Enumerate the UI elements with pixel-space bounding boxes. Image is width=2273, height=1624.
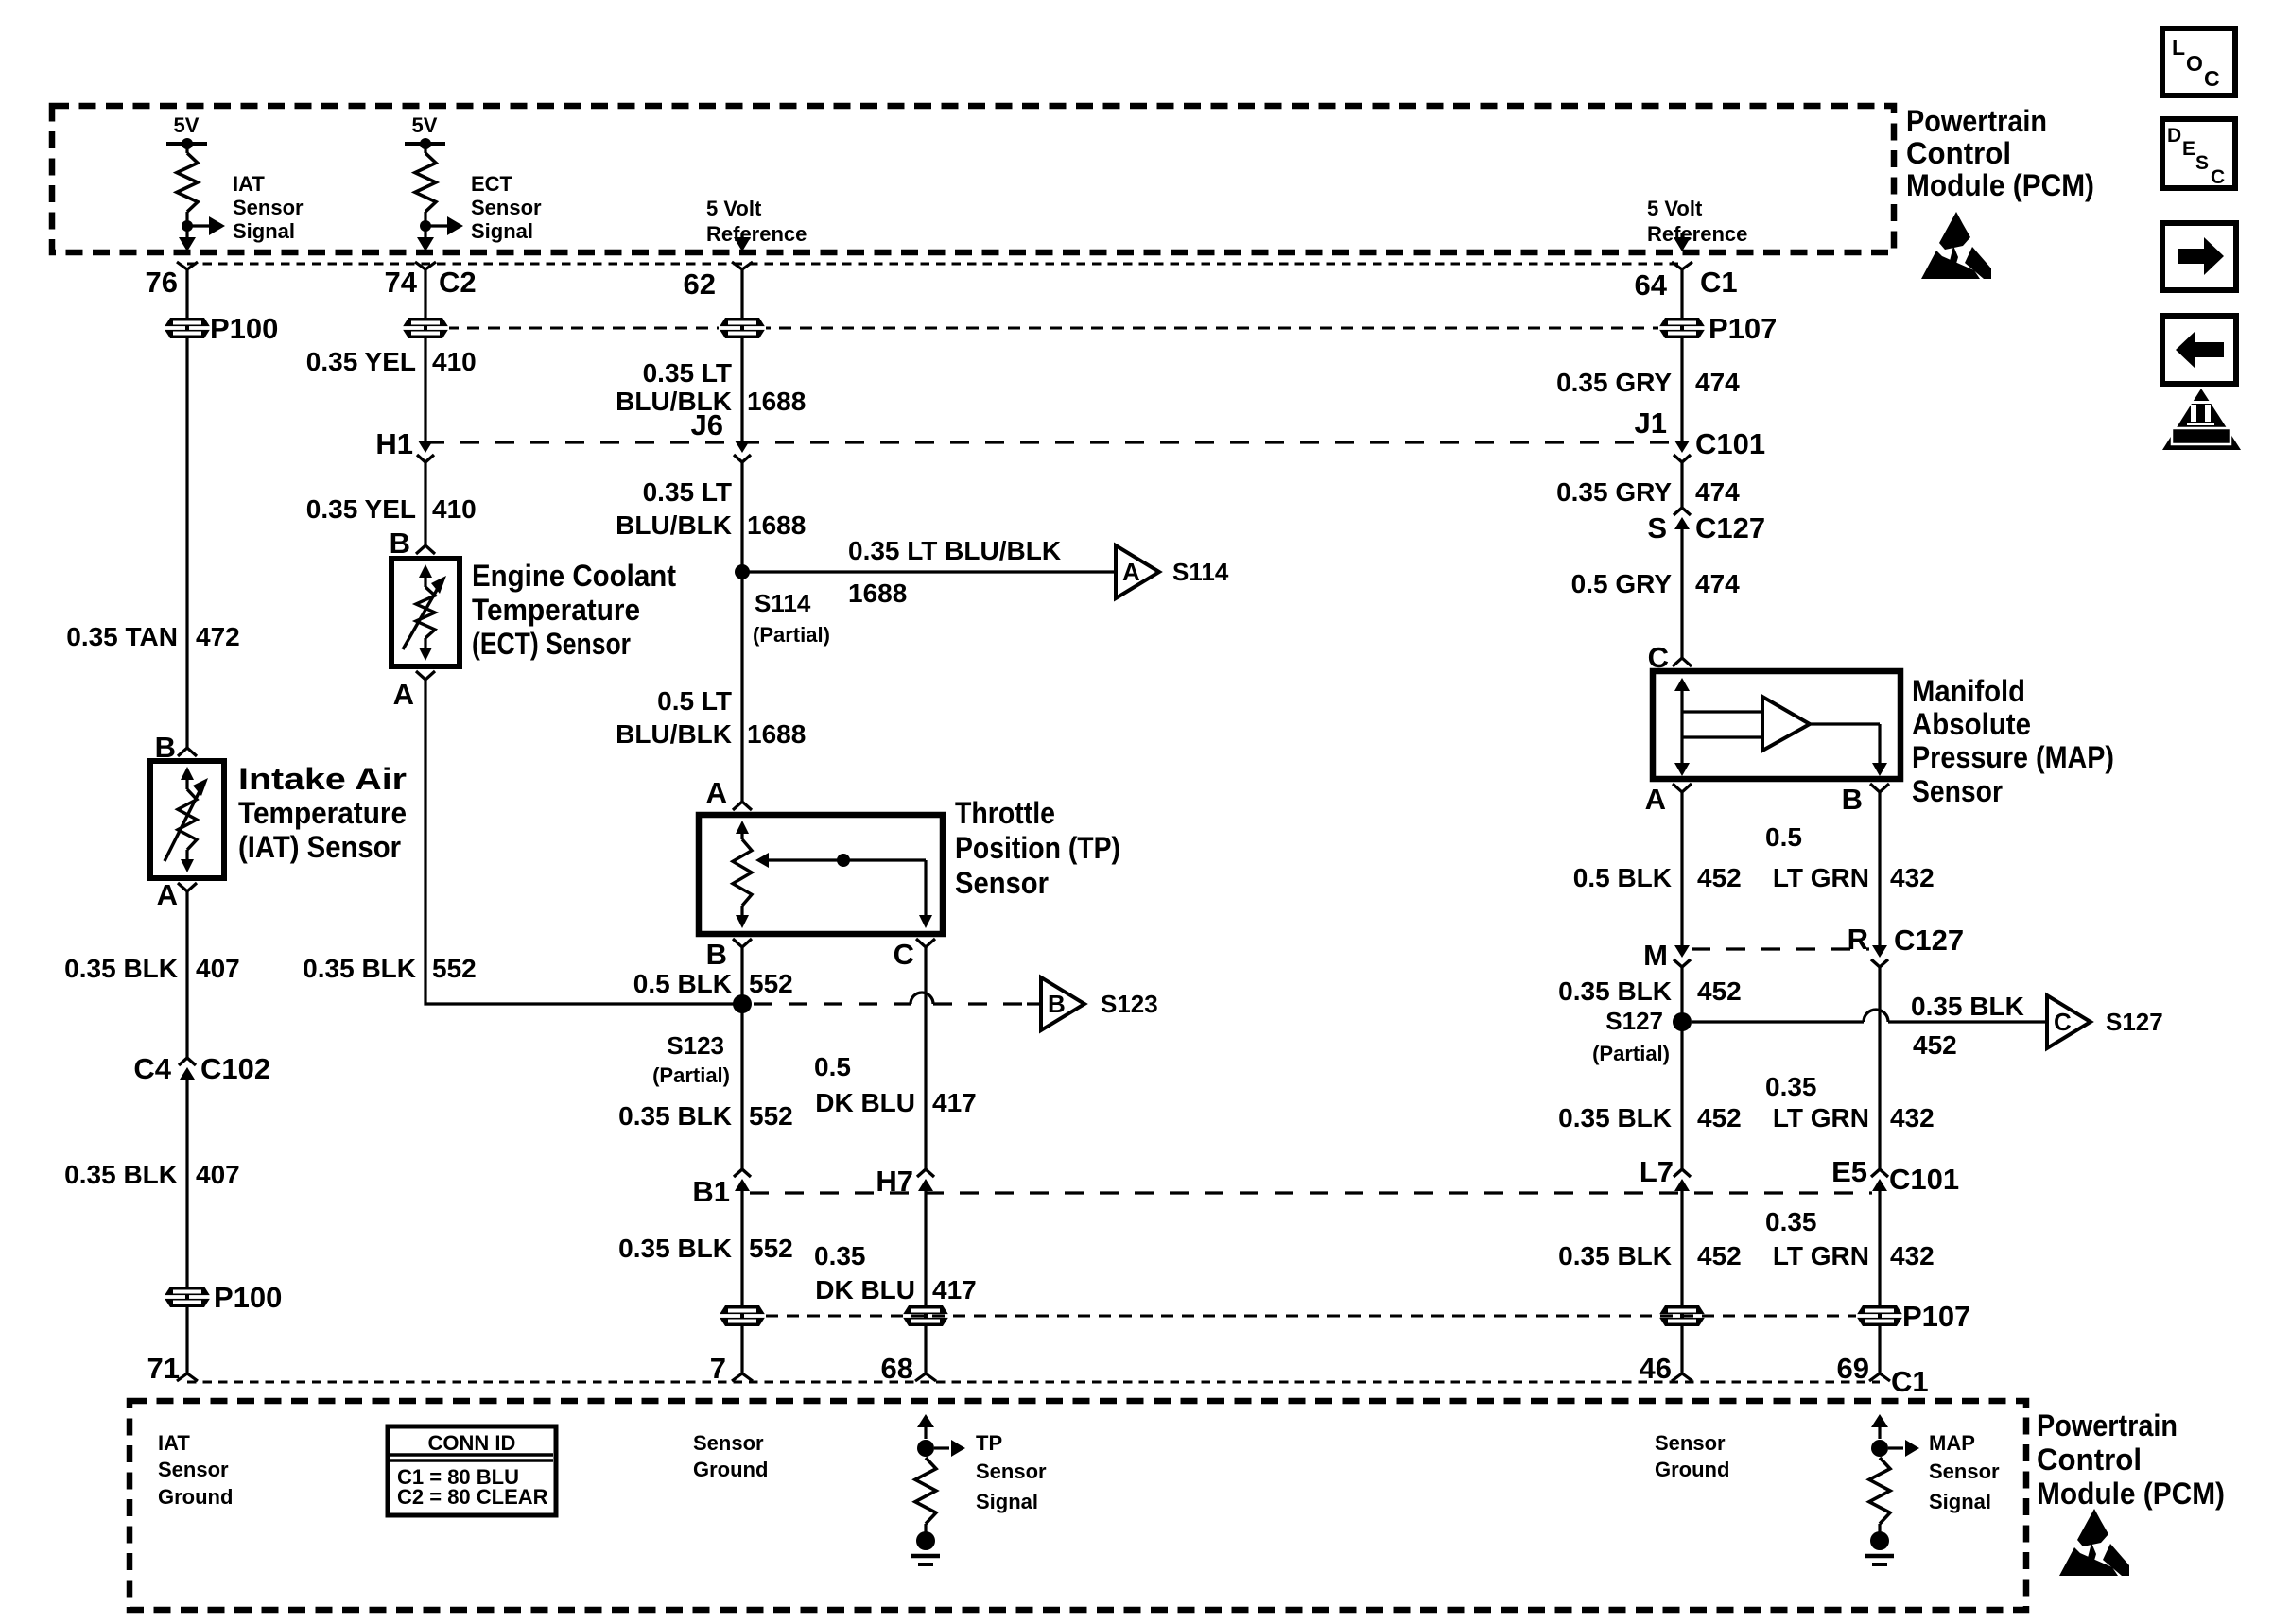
pin 7 (732, 1373, 753, 1381)
svg-text:Ground: Ground (1655, 1458, 1729, 1481)
label 0.35 LT BLU/BLK 1688 mid (616, 477, 806, 540)
svg-text:1688: 1688 (747, 719, 806, 749)
svg-text:552: 552 (432, 954, 477, 983)
svg-text:D: D (2167, 125, 2181, 147)
icon box DESC (2162, 119, 2235, 188)
svg-text:C1: C1 (1891, 1365, 1929, 1398)
label Manifold Absolute Pressure (MAP) Sensor (1912, 674, 2114, 808)
wire TP signal into PCM (arrow) (917, 1414, 965, 1457)
wire 5V reference right exits PCM (arrow) (1674, 233, 1691, 251)
svg-text:0.35: 0.35 (814, 1241, 866, 1270)
svg-text:B: B (1842, 783, 1863, 816)
PCM module top dashed box (52, 106, 1894, 252)
svg-text:410: 410 (432, 347, 477, 376)
wire TP B to S123 (740, 947, 743, 1004)
svg-text:ECT: ECT (471, 172, 513, 196)
svg-text:BLU/BLK: BLU/BLK (616, 510, 732, 540)
PCM module bottom dashed box (130, 1401, 2026, 1610)
svg-text:S: S (2195, 152, 2209, 174)
svg-text:J6: J6 (691, 408, 723, 441)
svg-text:Sensor: Sensor (233, 196, 304, 219)
svg-text:C127: C127 (1894, 924, 1964, 957)
wire IAT sensor signal tap (182, 212, 225, 239)
svg-text:(ECT) Sensor: (ECT) Sensor (472, 627, 631, 661)
connector P100 on ECT wire (402, 318, 449, 338)
svg-text:0.35 BLK: 0.35 BLK (1558, 976, 1672, 1006)
label Engine Coolant Temperature (ECT) Sensor (472, 559, 676, 661)
thermistor ECT (419, 564, 432, 578)
pin B TP sensor (733, 939, 752, 947)
svg-text:0.35 BLK: 0.35 BLK (64, 954, 178, 983)
svg-text:Powertrain: Powertrain (1906, 104, 2047, 138)
label TP Sensor Signal (976, 1431, 1047, 1513)
svg-text:0.35 BLK: 0.35 BLK (1558, 1103, 1672, 1132)
label MAP Sensor Signal (1929, 1431, 2000, 1513)
svg-text:Throttle: Throttle (955, 796, 1055, 830)
svg-text:Intake Air: Intake Air (238, 762, 407, 796)
inline connector H7 (917, 1169, 934, 1177)
splice node S127 (Partial) (1673, 1012, 1692, 1031)
thermistor IAT (181, 767, 194, 780)
svg-text:71: 71 (147, 1352, 180, 1385)
IAT sensor box (150, 761, 224, 878)
wire M to S127 (1680, 967, 1683, 1022)
svg-text:1688: 1688 (747, 387, 806, 416)
svg-text:0.35 BLK: 0.35 BLK (1911, 992, 2024, 1021)
svg-text:CONN ID: CONN ID (428, 1431, 516, 1455)
svg-text:Reference: Reference (706, 222, 807, 246)
wire IAT A down to C102 (185, 891, 188, 1058)
wire H1 to ECT sensor B (424, 462, 426, 545)
pin B MAP sensor (1870, 784, 1889, 792)
label Throttle Position (TP) Sensor (955, 796, 1120, 900)
svg-text:LT GRN: LT GRN (1773, 1241, 1869, 1270)
inline connector J1 C101 (1674, 441, 1690, 453)
wire connector to pin 7 (740, 1326, 743, 1373)
resistor MAP input (1869, 1458, 1890, 1524)
svg-text:0.5 BLK: 0.5 BLK (1573, 863, 1672, 892)
svg-text:417: 417 (932, 1275, 977, 1304)
svg-text:H1: H1 (375, 427, 413, 460)
ESD warning symbol bottom (2059, 1509, 2129, 1576)
icon OBD II triangle (2162, 389, 2241, 450)
svg-text:68: 68 (881, 1352, 913, 1385)
connector row dashed link C2-to-C1 (425, 327, 1682, 330)
svg-text:64: 64 (1635, 268, 1668, 302)
svg-text:Sensor: Sensor (158, 1458, 229, 1481)
dashed link B1-H7-L7-E5 (C101) (750, 1191, 1872, 1194)
svg-text:P100: P100 (214, 1281, 282, 1314)
label 5 Volt Reference left (706, 197, 807, 246)
label 0.35 DK BLU 417 (814, 1241, 977, 1304)
svg-text:Temperature: Temperature (238, 796, 407, 830)
svg-text:74: 74 (385, 266, 418, 299)
svg-text:552: 552 (749, 1234, 793, 1263)
svg-text:J1: J1 (1635, 406, 1667, 440)
svg-text:S114: S114 (1172, 558, 1229, 586)
icon box arrow right (2162, 223, 2236, 290)
wire E5 to P107 bottom (1878, 1191, 1881, 1305)
wire B1 to connector row (740, 1191, 743, 1305)
svg-text:O: O (2186, 51, 2203, 76)
wire P107 to pin 69 (1878, 1326, 1881, 1373)
pin 64 C1 (1635, 262, 1738, 302)
svg-text:5 Volt: 5 Volt (1647, 197, 1703, 220)
svg-text:B: B (390, 527, 410, 560)
svg-text:Sensor: Sensor (693, 1431, 764, 1455)
pin C MAP sensor (1673, 658, 1692, 666)
wire J1 to S C127 (1680, 462, 1683, 508)
TP sensor box (699, 815, 943, 934)
svg-text:452: 452 (1697, 976, 1742, 1006)
connector on right sensor-ground wire bottom (1658, 1305, 1706, 1326)
svg-text:7: 7 (710, 1352, 726, 1385)
inline connector J6 (735, 441, 750, 453)
svg-text:IAT: IAT (158, 1431, 190, 1455)
svg-text:552: 552 (749, 969, 793, 998)
svg-text:0.35 LT: 0.35 LT (643, 477, 732, 507)
connector row dashed link bottom (766, 1315, 1856, 1318)
svg-text:472: 472 (196, 622, 240, 651)
svg-text:C101: C101 (1889, 1163, 1959, 1196)
ground TP input (911, 1524, 940, 1564)
inline connector R C127 (1872, 945, 1887, 958)
connector P107 on right 5V-ref wire (1658, 318, 1706, 338)
label Sensor Ground (pin 7) (693, 1431, 768, 1481)
pointer triangle B S123 (1041, 977, 1084, 1030)
svg-text:P107: P107 (1902, 1300, 1970, 1333)
svg-text:407: 407 (196, 954, 240, 983)
label Sensor Ground (pin 46) (1655, 1431, 1729, 1481)
svg-text:Position (TP): Position (TP) (955, 831, 1120, 865)
inline connector B1 (734, 1169, 751, 1177)
pin 71 (177, 1373, 198, 1381)
inline connector H1 (418, 441, 433, 453)
ECT sensor box (391, 559, 460, 666)
label Intake Air Temperature (IAT) Sensor (238, 762, 407, 864)
pin A MAP sensor (1673, 784, 1692, 792)
svg-text:C101: C101 (1695, 427, 1765, 460)
ESD warning symbol top (1921, 212, 1991, 279)
inline connector C4 C102 (179, 1058, 196, 1065)
svg-text:LT GRN: LT GRN (1773, 1103, 1869, 1132)
svg-text:OBD II: OBD II (2177, 430, 2226, 444)
svg-text:S127: S127 (2106, 1008, 2163, 1036)
svg-text:Sensor: Sensor (1929, 1460, 2000, 1483)
pin 46 (1672, 1373, 1692, 1381)
pin 62 (684, 262, 753, 301)
svg-text:0.35 BLK: 0.35 BLK (64, 1160, 178, 1189)
svg-text:Pressure (MAP): Pressure (MAP) (1912, 740, 2114, 774)
svg-text:5 Volt: 5 Volt (706, 197, 762, 220)
wire IAT pin76 to P100 (185, 269, 188, 318)
svg-text:LT GRN: LT GRN (1773, 863, 1869, 892)
svg-text:0.35 BLK: 0.35 BLK (618, 1101, 732, 1131)
wire ECT pin74 to P100 (424, 269, 426, 318)
connector on 5V-ref wire (719, 318, 766, 338)
svg-text:417: 417 (932, 1088, 977, 1117)
pointer triangle C S127 (2047, 995, 2091, 1048)
connector on sensor-ground wire bottom (719, 1305, 766, 1326)
svg-text:S: S (1647, 511, 1667, 544)
svg-text:L7: L7 (1640, 1155, 1674, 1188)
svg-text:Signal: Signal (1929, 1490, 1991, 1513)
svg-text:E: E (2182, 138, 2195, 160)
wire P100 to IAT sensor B (185, 338, 188, 748)
svg-text:DK BLU: DK BLU (815, 1088, 915, 1117)
wire pin64 to P107 (1680, 269, 1683, 318)
PCM connector face dashed line top (187, 263, 1682, 266)
svg-text:452: 452 (1697, 1103, 1742, 1132)
inline connector M (1674, 945, 1690, 958)
wire P107 to J1 (1680, 338, 1683, 441)
MAP sensor box (1653, 671, 1900, 779)
wire IAT signal exits PCM (arrow) (179, 237, 196, 251)
ground MAP input (1865, 1524, 1894, 1564)
wire C102 to P100 lower (185, 1080, 188, 1287)
svg-text:0.35 LT BLU/BLK: 0.35 LT BLU/BLK (848, 536, 1061, 565)
svg-text:0.5 BLK: 0.5 BLK (633, 969, 732, 998)
amplifier MAP sensor internals (1674, 678, 1887, 776)
connector on TP signal wire bottom (902, 1305, 949, 1326)
svg-text:C1: C1 (1700, 266, 1738, 299)
pin C TP sensor (916, 939, 935, 947)
svg-text:(IAT) Sensor: (IAT) Sensor (238, 830, 401, 864)
svg-text:46: 46 (1640, 1352, 1672, 1385)
svg-text:0.35 BLK: 0.35 BLK (1558, 1241, 1672, 1270)
dashed branch S123 to pointer B (754, 1002, 911, 1005)
pin A TP sensor (733, 802, 752, 810)
svg-text:TP: TP (976, 1431, 1002, 1455)
wire connector to pin 68 (924, 1326, 927, 1373)
svg-text:E5: E5 (1831, 1155, 1867, 1188)
svg-text:Engine Coolant: Engine Coolant (472, 559, 676, 593)
svg-text:1688: 1688 (747, 510, 806, 540)
label IAT Sensor Signal (233, 172, 304, 243)
svg-text:5V: 5V (412, 113, 438, 137)
svg-text:410: 410 (432, 494, 477, 524)
svg-text:C2: C2 (439, 266, 477, 299)
svg-text:0.35 GRY: 0.35 GRY (1556, 368, 1672, 397)
svg-text:A: A (157, 878, 178, 911)
connector P100 lower on IAT wire (164, 1287, 211, 1307)
pin A IAT sensor (178, 883, 197, 891)
svg-text:0.35 TAN: 0.35 TAN (66, 622, 178, 651)
inline connector L7 (1674, 1169, 1691, 1177)
label 0.35 LT GRN 432 (mid) (1765, 1072, 1935, 1132)
inline connector S C127 (1674, 508, 1691, 515)
svg-text:Module (PCM): Module (PCM) (2037, 1477, 2225, 1511)
wire H7 to connector row (924, 1191, 927, 1305)
svg-text:474: 474 (1695, 477, 1740, 507)
svg-text:C4: C4 (133, 1052, 171, 1085)
pin 69 C1 (1869, 1373, 1890, 1381)
svg-text:432: 432 (1890, 863, 1935, 892)
svg-text:407: 407 (196, 1160, 240, 1189)
svg-text:Ground: Ground (693, 1458, 768, 1481)
svg-text:62: 62 (684, 268, 716, 301)
svg-text:B1: B1 (692, 1175, 730, 1208)
svg-text:C2 = 80 CLEAR: C2 = 80 CLEAR (397, 1485, 548, 1509)
label Powertrain Control Module (PCM) top right (1906, 104, 2094, 202)
svg-text:0.35 LT: 0.35 LT (643, 358, 732, 388)
wire ECT signal exits PCM (arrow) (417, 237, 434, 251)
svg-text:1688: 1688 (848, 579, 907, 608)
svg-text:474: 474 (1695, 368, 1740, 397)
svg-text:0.35 BLK: 0.35 BLK (618, 1234, 732, 1263)
svg-text:0.35 BLK: 0.35 BLK (303, 954, 416, 983)
wire MAP B to R (1878, 792, 1881, 945)
svg-text:0.35 GRY: 0.35 GRY (1556, 477, 1672, 507)
svg-text:432: 432 (1890, 1241, 1935, 1270)
pointer triangle A S114 (1116, 545, 1159, 598)
wire MAP signal into PCM (arrow) (1871, 1414, 1919, 1457)
label 0.5 LT BLU/BLK 1688 (616, 686, 806, 749)
wire 5V reference left exits PCM (arrow) (734, 233, 751, 251)
wire S to MAP sensor C (1680, 529, 1683, 658)
svg-text:A: A (1645, 783, 1666, 816)
svg-text:B: B (706, 938, 727, 971)
svg-text:BLU/BLK: BLU/BLK (616, 719, 732, 749)
pin 76 (146, 262, 198, 299)
svg-text:452: 452 (1697, 863, 1742, 892)
label 5 Volt Reference right (1647, 197, 1747, 246)
pin B IAT sensor (178, 748, 197, 756)
svg-text:A: A (393, 678, 414, 711)
svg-text:Control: Control (2037, 1443, 2142, 1477)
label 0.5 LT GRN 432 (1765, 822, 1935, 892)
label 0.5 DK BLU 417 (814, 1052, 977, 1117)
CONN ID legend table (388, 1426, 556, 1515)
svg-text:Control: Control (1906, 136, 2011, 170)
splice node S114 (Partial) (735, 564, 750, 579)
potentiometer TP sensor (733, 821, 932, 928)
svg-text:C: C (2054, 1008, 2072, 1036)
wire S127 branch to pointer C (with hop) (1692, 1020, 1864, 1023)
label IAT Sensor Ground (158, 1431, 233, 1509)
pin 68 (915, 1373, 936, 1381)
5V supply node ECT (405, 113, 445, 153)
wire ECT sensor signal tap (420, 212, 463, 239)
svg-text:Sensor: Sensor (1912, 774, 2003, 808)
svg-text:474: 474 (1695, 569, 1740, 598)
label Powertrain Control Module (PCM) bottom right (2037, 1408, 2225, 1511)
svg-text:S123: S123 (667, 1031, 724, 1060)
wire connector to J6 (740, 338, 743, 441)
connector P107 bottom on MAP signal wire (1856, 1305, 1903, 1326)
svg-text:Powertrain: Powertrain (2037, 1408, 2178, 1443)
dashed link M to R (C127) (1692, 947, 1869, 950)
inline connector E5 C101 (1871, 1169, 1888, 1177)
inline connector row dashed link H1-J6-J1 (425, 441, 1682, 443)
svg-text:DK BLU: DK BLU (815, 1275, 915, 1304)
wire ECT A down and over to S123 (425, 680, 735, 1004)
svg-text:IAT: IAT (233, 172, 265, 196)
svg-text:C: C (2204, 66, 2220, 91)
svg-text:Signal: Signal (976, 1490, 1038, 1513)
svg-text:P100: P100 (210, 312, 278, 345)
5V supply node IAT (166, 113, 207, 153)
svg-text:Temperature: Temperature (472, 593, 640, 627)
connector P100 on IAT wire (164, 318, 211, 338)
svg-text:S114: S114 (755, 589, 811, 617)
svg-text:Absolute: Absolute (1912, 707, 2031, 741)
pin 74 C2 (385, 262, 477, 299)
label 0.35 LT GRN 432 (lower) (1765, 1207, 1935, 1270)
icon box LOC (2162, 28, 2235, 95)
svg-text:Ground: Ground (158, 1485, 233, 1509)
pin B ECT sensor (416, 545, 435, 554)
svg-text:76: 76 (146, 266, 178, 299)
svg-text:Sensor: Sensor (471, 196, 542, 219)
svg-text:(Partial): (Partial) (1592, 1042, 1670, 1065)
svg-text:A: A (1122, 558, 1140, 586)
svg-text:0.35 YEL: 0.35 YEL (306, 494, 416, 524)
svg-text:A: A (706, 776, 727, 809)
svg-text:0.35: 0.35 (1765, 1072, 1817, 1101)
svg-text:S127: S127 (1605, 1007, 1663, 1035)
svg-text:Sensor: Sensor (1655, 1431, 1726, 1455)
svg-text:Signal: Signal (471, 219, 533, 243)
wire P100 to H1 (424, 338, 426, 441)
wire MAP A to M (1680, 792, 1683, 945)
svg-text:69: 69 (1837, 1352, 1869, 1385)
svg-text:Signal: Signal (233, 219, 295, 243)
svg-text:C: C (2211, 166, 2225, 188)
label ECT Sensor Signal (471, 172, 542, 243)
svg-text:Sensor: Sensor (976, 1460, 1047, 1483)
wire connector to pin 46 (1680, 1326, 1683, 1373)
svg-text:452: 452 (1913, 1030, 1957, 1060)
wire R to E5 (1878, 967, 1881, 1169)
svg-text:MAP: MAP (1929, 1431, 1975, 1455)
wire J6 to TP sensor A (740, 462, 743, 802)
svg-text:C102: C102 (200, 1052, 270, 1085)
wire L7 to connector row (1680, 1191, 1683, 1305)
pin A ECT sensor (416, 671, 435, 680)
svg-text:L: L (2172, 35, 2185, 60)
svg-text:Sensor: Sensor (955, 866, 1049, 900)
svg-text:0.5 LT: 0.5 LT (657, 686, 732, 716)
wire S114 branch to pointer A (742, 570, 1116, 573)
svg-text:C: C (894, 938, 914, 971)
svg-text:0.35: 0.35 (1765, 1207, 1817, 1236)
svg-text:C127: C127 (1695, 511, 1765, 544)
wire S127 down to L7 (1680, 1022, 1683, 1169)
svg-text:Module (PCM): Module (PCM) (1906, 168, 2094, 202)
label 0.35 LT BLU/BLK 1688 upper (616, 358, 806, 416)
wire TP C down to H7 (924, 947, 927, 1169)
svg-text:5V: 5V (174, 113, 200, 137)
resistor ECT pull-up (415, 153, 436, 212)
resistor TP input (915, 1458, 936, 1524)
svg-text:0.5: 0.5 (1765, 822, 1802, 852)
splice node S123 (Partial) (733, 994, 752, 1013)
svg-text:Reference: Reference (1647, 222, 1747, 246)
svg-text:432: 432 (1890, 1103, 1935, 1132)
svg-text:(Partial): (Partial) (652, 1063, 730, 1087)
svg-text:0.35 YEL: 0.35 YEL (306, 347, 416, 376)
svg-text:0.5: 0.5 (814, 1052, 851, 1081)
svg-text:R: R (1848, 923, 1868, 956)
svg-text:(Partial): (Partial) (753, 623, 830, 647)
wire S123 down to B1 (740, 1004, 743, 1169)
svg-text:M: M (1643, 939, 1668, 972)
svg-text:P107: P107 (1709, 312, 1777, 345)
wire pin62 to connector (740, 269, 743, 318)
svg-text:Manifold: Manifold (1912, 674, 2025, 708)
svg-text:B: B (1048, 990, 1066, 1018)
